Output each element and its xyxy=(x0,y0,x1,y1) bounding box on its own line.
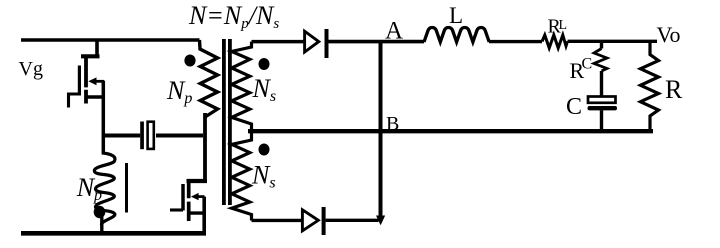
Cin right plate xyxy=(148,122,154,149)
inductor Np (left winding) xyxy=(76,153,127,232)
svg-text:Vg: Vg xyxy=(19,58,43,80)
Q2 body arrow xyxy=(198,195,205,198)
svg-text:N=Np/Ns: N=Np/Ns xyxy=(188,1,279,32)
svg-text:L: L xyxy=(559,18,568,33)
Q1 gate lead xyxy=(69,93,80,108)
phase dot primary xyxy=(184,55,195,67)
wire L to RL xyxy=(489,40,542,43)
wire RL to Vo corner xyxy=(568,40,658,43)
phase dot secondary upper xyxy=(259,58,270,70)
wire middle row left xyxy=(104,134,140,138)
wire C to bottom rail xyxy=(600,110,603,131)
wire bottom input rail xyxy=(21,231,206,236)
Q2 gate lead xyxy=(170,208,183,211)
wire Np bottom lead xyxy=(100,214,103,232)
Q1 gate bar xyxy=(78,66,81,96)
Q2 gate bar xyxy=(181,184,185,211)
svg-text:A: A xyxy=(385,17,403,44)
transformer T1 primary winding Np xyxy=(166,40,218,117)
wire top input rail xyxy=(21,38,200,42)
svg-text:B: B xyxy=(386,113,399,135)
wire secondary top to diode xyxy=(252,40,304,44)
transformer secondary winding Ns upper xyxy=(232,42,276,221)
phase dot secondary lower xyxy=(259,144,270,156)
resistor RL xyxy=(542,35,568,48)
svg-text:R: R xyxy=(665,75,683,104)
Q2 drain bar xyxy=(187,179,208,183)
wire node B rail xyxy=(248,129,653,133)
wire Q2 source lead xyxy=(202,197,206,234)
transistor Q1 xyxy=(69,40,105,155)
phase dot Np left xyxy=(94,206,106,218)
wire Q1 drain lead xyxy=(95,40,99,56)
wire secondary bottom to diode D2 xyxy=(252,219,302,222)
Q2 source bar xyxy=(189,211,206,214)
arrowhead at node A vertical bottom xyxy=(376,216,385,226)
Q2 channel xyxy=(187,179,191,221)
wire middle row right xyxy=(156,134,203,138)
wire Q1 source lead xyxy=(102,81,106,155)
svg-text:L: L xyxy=(449,3,463,28)
capacitor Cin xyxy=(140,122,154,150)
svg-text:C: C xyxy=(582,56,593,73)
Q1 channel xyxy=(84,55,88,104)
Q1 drain bar xyxy=(81,54,100,58)
svg-text:Vo: Vo xyxy=(657,22,681,47)
resistor R load xyxy=(641,41,659,131)
inductor L xyxy=(424,28,489,43)
wire RC to C xyxy=(600,71,603,96)
diode D1 xyxy=(305,29,329,58)
wire diode D2 to node A vertical xyxy=(326,219,379,222)
transistor Q2 xyxy=(170,113,207,233)
Q1 body arrow xyxy=(95,80,104,83)
svg-text:C: C xyxy=(566,94,582,120)
wire diode D1 to node A to inductor L xyxy=(329,40,425,44)
transformer core bar right xyxy=(228,39,232,205)
Q1 source bar xyxy=(86,95,103,98)
core bar of Np xyxy=(125,163,128,213)
capacitor C xyxy=(588,97,618,111)
Cin left plate xyxy=(140,122,144,150)
diode D2 xyxy=(302,207,325,235)
transformer core bar left xyxy=(222,39,226,205)
wire node A vertical xyxy=(379,42,383,216)
wire Q2 drain lead (from transformer primary) xyxy=(203,113,207,181)
resistor RC xyxy=(594,49,607,72)
resistor RC branch stub xyxy=(600,41,603,48)
